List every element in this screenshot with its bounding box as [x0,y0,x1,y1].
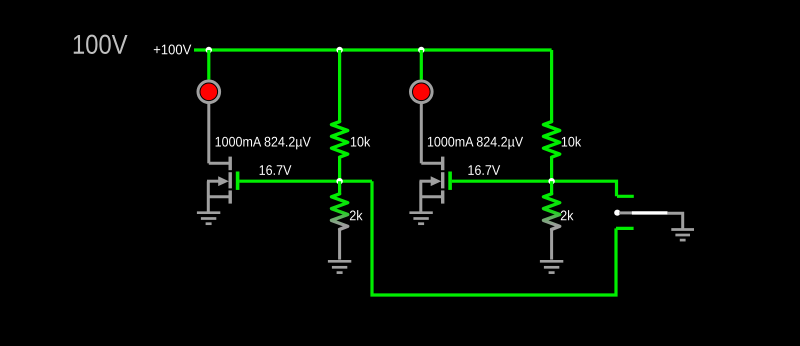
label R4 value "2k" [561,210,574,220]
voltage rail +100V label [154,45,192,55]
switch SW1 top throw lead [617,195,634,198]
wire switch common to ground G5 [667,213,682,229]
wire feedback from Q1 gate to switch bottom throw [372,181,616,295]
LED D1 [198,81,220,103]
wire Q2 gate net [452,181,617,196]
resistor R3 10k [544,122,560,158]
wire R2 to ground G2 [338,229,341,259]
wire R1 to node D [338,157,341,181]
wire node E to R4 [550,181,553,194]
wire R3 to node E [550,157,553,181]
wire +100V rail [194,48,552,51]
node E (R3 / R4 / Q2 gate junction) [548,178,554,184]
resistor R2 2k [332,194,348,230]
label R1 value "10k" [351,136,370,146]
node A (rail / LED D1 junction) [206,47,212,53]
ground G4 (R4) [540,261,563,272]
switch SW1 lever [632,211,668,214]
label Q1 current/voltage "1000mA 824.2uV" [216,137,311,150]
wire Q1 gate net [239,180,372,183]
node D (R1 / R2 / Q1 gate junction) [336,178,342,184]
ground G2 (R2) [328,261,351,272]
switch SW1 pole post dot [614,210,620,216]
wire LED D2 cathode to Q2 drain [420,104,423,163]
resistor R1 10k [332,122,348,158]
switch SW1 pole lead [619,211,632,214]
label Q2 gate voltage "16.7V" [468,165,500,175]
label R3 value "10k" [562,136,581,146]
wire rail to LED D1 [207,50,210,80]
wire rail to R1 [338,50,341,122]
label Q2 current/voltage "1000mA 824.2uV" [428,137,523,150]
wire node D to R2 [338,181,341,194]
label Q1 gate voltage "16.7V" [260,165,292,175]
ground G5 (switch common) [671,230,694,241]
ground G3 (Q2 source) [409,213,432,224]
switch SW1 bottom throw lead [616,227,634,230]
transistor Q2 (NMOS) [420,157,451,213]
resistor R4 2k [544,194,560,230]
node B (rail / R1 junction) [336,47,342,53]
wire LED D1 cathode to Q1 drain [207,104,210,163]
transistor Q1 (NMOS) [207,157,238,213]
node C (rail / LED D2 junction) [418,47,424,53]
LED D2 [411,81,433,103]
wire rail corner down to R3 [550,50,553,122]
wire R4 to ground G4 [550,229,553,259]
text label "100V" [74,35,128,54]
label R2 value "2k" [350,210,363,220]
ground G1 (Q1 source) [197,213,220,224]
wire rail to LED D2 [420,50,423,80]
